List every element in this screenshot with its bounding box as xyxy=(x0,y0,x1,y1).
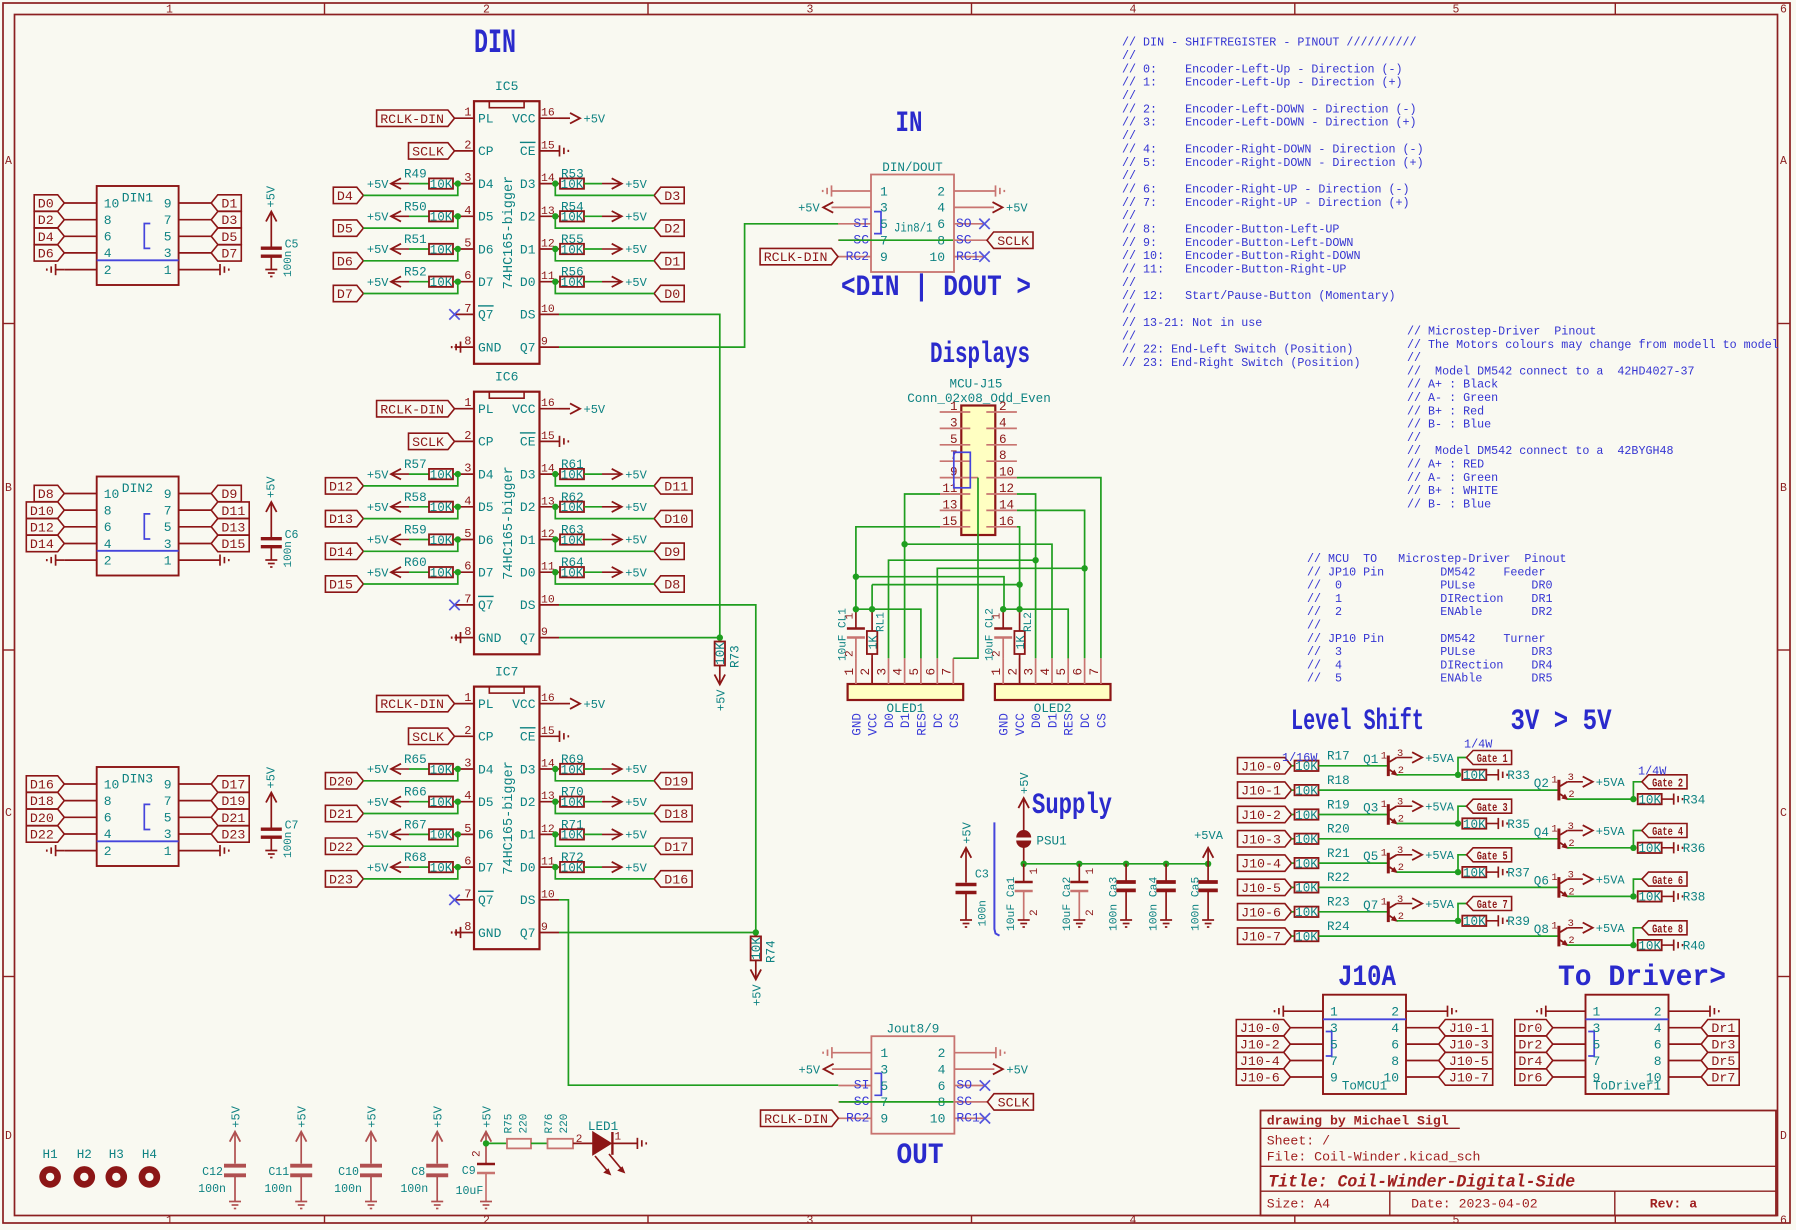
svg-text:// 4 DIRection: // 4 DIRection DR4 xyxy=(1307,658,1552,672)
wire xyxy=(889,560,1036,658)
power +5V xyxy=(370,1132,372,1164)
global label SCLK xyxy=(987,232,1033,248)
net label D2 xyxy=(34,212,64,228)
svg-text:10K: 10K xyxy=(1295,809,1318,823)
svg-text:3: 3 xyxy=(880,201,888,216)
pin 1 of OLED2 xyxy=(1002,658,1004,684)
net label J10-3 xyxy=(1439,1036,1493,1052)
svg-text:D9: D9 xyxy=(221,487,237,502)
svg-text:C3: C3 xyxy=(975,869,989,882)
svg-text:Gate 6: Gate 6 xyxy=(1652,875,1683,888)
svg-text:+5V: +5V xyxy=(625,796,647,810)
junction xyxy=(1032,557,1038,563)
svg-text:220: 220 xyxy=(559,1114,571,1134)
svg-text:4: 4 xyxy=(104,827,112,842)
pin 3 of IC7 xyxy=(455,768,475,770)
ground xyxy=(1018,919,1030,921)
net label J10-7 xyxy=(1238,928,1292,944)
pin 8 of Jin8/1 xyxy=(954,239,987,241)
svg-text:GND: GND xyxy=(850,713,864,736)
ground xyxy=(1709,1006,1711,1017)
pin 9 of IC5 xyxy=(540,346,560,348)
wire xyxy=(584,281,602,283)
svg-text:MCU-J15: MCU-J15 xyxy=(950,378,1003,392)
wire xyxy=(409,539,429,541)
svg-text:1: 1 xyxy=(166,3,173,16)
svg-text:C11: C11 xyxy=(268,1166,289,1179)
junction xyxy=(1455,772,1461,778)
pin 1 of IC6 xyxy=(455,408,475,410)
svg-text:7: 7 xyxy=(1088,668,1102,676)
junction xyxy=(1455,820,1461,826)
junction xyxy=(552,569,558,575)
power +5V xyxy=(719,666,721,685)
svg-text:10K: 10K xyxy=(1295,857,1318,871)
symbol graphic bracket xyxy=(874,1073,881,1095)
pin 12 of IC6 xyxy=(540,539,560,541)
svg-text:R22: R22 xyxy=(1327,871,1350,885)
svg-text:VCC: VCC xyxy=(1014,713,1028,736)
svg-text:Dr3: Dr3 xyxy=(1711,1038,1735,1053)
wire xyxy=(1319,814,1388,816)
resistor R24 xyxy=(1295,931,1319,941)
svg-text:D1: D1 xyxy=(520,242,536,257)
svg-text:9: 9 xyxy=(1330,1070,1338,1085)
pin 5 of IC7 xyxy=(455,833,475,835)
global label SCLK xyxy=(409,728,455,744)
power +5V xyxy=(612,178,622,189)
wire xyxy=(1003,609,1068,658)
svg-text:12: 12 xyxy=(999,482,1014,496)
resistor R66 xyxy=(429,797,453,807)
pin 5 of DIN1 xyxy=(179,235,212,237)
wire xyxy=(453,866,458,868)
svg-text:10K: 10K xyxy=(1638,939,1661,953)
net label Gate 7 xyxy=(1467,897,1512,911)
svg-text:R52: R52 xyxy=(404,266,427,280)
svg-text:15: 15 xyxy=(942,515,957,529)
svg-text:+5V: +5V xyxy=(367,829,389,843)
resistor R71 xyxy=(560,829,584,839)
junction xyxy=(1205,861,1211,867)
pin 4 of DIN1 xyxy=(64,252,96,254)
svg-text:220: 220 xyxy=(519,1114,531,1134)
wire xyxy=(871,585,873,610)
wire xyxy=(363,507,457,519)
pin 1 of ToMCU1 xyxy=(1283,1010,1323,1012)
svg-text:6: 6 xyxy=(104,520,112,535)
svg-text:D1: D1 xyxy=(664,254,680,269)
svg-text:4: 4 xyxy=(937,201,945,216)
pin 3 of Jin8/1 xyxy=(832,206,872,208)
net label D5 xyxy=(333,220,363,236)
svg-text:// A- : Green: // A- : Green xyxy=(1407,471,1498,485)
svg-text:J10-2: J10-2 xyxy=(1240,1038,1280,1053)
svg-text:10: 10 xyxy=(999,466,1014,480)
svg-text:RC2: RC2 xyxy=(846,249,869,264)
pin 8 of IC6 xyxy=(455,637,475,639)
svg-text:D3: D3 xyxy=(520,467,536,482)
junction xyxy=(717,634,723,640)
net label Gate 1 xyxy=(1467,751,1512,765)
pin 3 of DIN3 xyxy=(179,833,212,835)
svg-text:2: 2 xyxy=(1391,1005,1399,1020)
svg-text:3: 3 xyxy=(880,1062,888,1077)
svg-text:10K: 10K xyxy=(430,243,453,257)
svg-text:3: 3 xyxy=(1568,870,1574,882)
junction xyxy=(552,864,558,870)
pin 14 of MCU-J15 xyxy=(986,509,1017,511)
pin 10 of DIN3 xyxy=(64,783,96,785)
pin 5 of ToDriver1 xyxy=(1553,1043,1586,1045)
pin 10 of Jout8/9 xyxy=(954,1117,984,1119)
svg-text:1: 1 xyxy=(843,668,857,676)
junction xyxy=(455,471,461,477)
wire xyxy=(409,866,429,868)
svg-text:5: 5 xyxy=(1330,1037,1338,1052)
pin 5 of DIN3 xyxy=(179,816,212,818)
svg-text:14: 14 xyxy=(999,498,1014,512)
pin 9 of MCU-J15 xyxy=(940,477,971,479)
svg-text:R34: R34 xyxy=(1683,793,1706,807)
svg-text:D: D xyxy=(5,1130,12,1143)
resistor R69 xyxy=(560,764,584,774)
resistor R60 xyxy=(429,567,453,577)
svg-text:4: 4 xyxy=(1039,668,1053,676)
svg-text:10K: 10K xyxy=(1463,866,1486,880)
svg-text:Gate 7: Gate 7 xyxy=(1477,899,1508,912)
pin 9 of ToDriver1 xyxy=(1553,1076,1586,1078)
pin 4 of Jout8/9 xyxy=(954,1068,994,1070)
svg-text:+5V: +5V xyxy=(625,861,647,875)
pin 2 of IC6 xyxy=(455,440,475,442)
svg-text:3: 3 xyxy=(807,1214,814,1227)
svg-text:IC7: IC7 xyxy=(495,665,518,680)
global label RCLK-DIN xyxy=(377,401,455,417)
pin 8 of Jout8/9 xyxy=(954,1101,987,1103)
pin 6 of DIN1 xyxy=(64,235,96,237)
svg-text:2: 2 xyxy=(938,1046,946,1061)
symbol graphic bracket xyxy=(144,804,150,829)
junction xyxy=(455,799,461,805)
svg-text:5: 5 xyxy=(164,811,172,826)
pin 10 of Jin8/1 xyxy=(954,256,984,258)
junction xyxy=(552,471,558,477)
svg-text:1K: 1K xyxy=(867,636,880,650)
wire xyxy=(409,248,429,250)
svg-text:+5V: +5V xyxy=(1006,1063,1028,1077)
svg-text:1/16W: 1/16W xyxy=(1282,751,1318,765)
ground xyxy=(1447,1006,1449,1017)
svg-text:2: 2 xyxy=(1085,909,1097,916)
net label D14 xyxy=(26,535,64,552)
pin 4 of MCU-J15 xyxy=(986,427,1017,429)
ground xyxy=(265,559,277,561)
wire xyxy=(453,571,458,573)
resistor R75 220 xyxy=(507,1139,531,1149)
svg-text:1: 1 xyxy=(880,1046,888,1061)
pin 4 of IC6 xyxy=(455,506,475,508)
svg-text:10K: 10K xyxy=(430,829,453,843)
svg-text:10K: 10K xyxy=(561,829,584,843)
ground xyxy=(55,264,57,275)
svg-text:+5V: +5V xyxy=(296,1105,310,1127)
power +5V xyxy=(391,276,401,287)
symbol graphic line xyxy=(1323,1018,1406,1020)
pin 2 of OLED2 xyxy=(1019,658,1021,684)
pin 3 of MCU-J15 xyxy=(940,427,971,429)
svg-text:PL: PL xyxy=(478,112,494,127)
power +5VA xyxy=(1207,848,1209,864)
ground xyxy=(219,264,221,275)
svg-text:D0: D0 xyxy=(38,197,54,212)
pin 2 of MCU-J15 xyxy=(986,411,1017,413)
pin 15 of MCU-J15 xyxy=(940,526,971,528)
svg-text:7: 7 xyxy=(164,794,172,809)
svg-text://: // xyxy=(1122,276,1136,290)
pin 4 of IC5 xyxy=(455,215,475,217)
pin 11 of IC7 xyxy=(540,866,560,868)
svg-text:D4: D4 xyxy=(478,177,494,192)
svg-text:R19: R19 xyxy=(1327,798,1350,812)
ground xyxy=(1120,919,1132,921)
svg-text:<DIN | DOUT >: <DIN | DOUT > xyxy=(841,271,1031,305)
power +5V xyxy=(391,469,401,480)
power +5V xyxy=(612,244,622,255)
svg-text:6: 6 xyxy=(999,433,1007,447)
svg-text:D18: D18 xyxy=(664,807,688,822)
power +5V xyxy=(612,502,622,513)
svg-text:CE: CE xyxy=(520,730,536,745)
svg-text:+5V: +5V xyxy=(367,861,389,875)
power +5V xyxy=(612,276,622,287)
symbol graphic line xyxy=(1586,1018,1669,1020)
svg-text:J10-1: J10-1 xyxy=(1241,784,1281,799)
symbol graphic blue bracket xyxy=(994,822,999,935)
pin 9 of DIN1 xyxy=(179,202,212,204)
wire xyxy=(584,768,602,770)
svg-text:// DIN - SHIFTREGISTER - PINOU: // DIN - SHIFTREGISTER - PINOUT ////////… xyxy=(1122,36,1417,50)
net label D22 xyxy=(26,826,64,842)
capacitor C10 100n xyxy=(360,1164,382,1168)
svg-text:// 11: Encoder-Button-Right-: // 11: Encoder-Button-Right-UP xyxy=(1122,263,1346,277)
resistor R67 xyxy=(429,829,453,839)
svg-text://: // xyxy=(1122,209,1136,223)
pin 14 of IC6 xyxy=(540,473,560,475)
svg-text:D10: D10 xyxy=(664,512,688,527)
svg-text:CE: CE xyxy=(520,435,536,450)
svg-text:R65: R65 xyxy=(404,753,427,767)
junction xyxy=(455,279,461,285)
svg-text:D6: D6 xyxy=(337,254,353,269)
wire xyxy=(363,769,457,781)
symbol graphic bracket xyxy=(144,224,150,249)
junction xyxy=(1455,918,1461,924)
svg-text:C5: C5 xyxy=(285,239,299,252)
net label D11 xyxy=(211,502,249,519)
svg-text:// B+ : Red: // B+ : Red xyxy=(1407,404,1484,418)
svg-text:R66: R66 xyxy=(404,786,427,800)
wire xyxy=(409,183,429,185)
svg-text:2: 2 xyxy=(104,553,112,568)
svg-text:100n: 100n xyxy=(283,832,295,858)
pin 8 of IC7 xyxy=(455,932,475,934)
wire xyxy=(555,184,654,196)
wire xyxy=(1633,831,1642,848)
no-connect xyxy=(449,895,459,905)
svg-text:100n: 100n xyxy=(400,1183,428,1196)
junction xyxy=(455,213,461,219)
svg-text:+5V: +5V xyxy=(625,763,647,777)
symbol graphic line xyxy=(97,259,179,261)
svg-text:D15: D15 xyxy=(329,578,353,593)
svg-text:10K: 10K xyxy=(1463,915,1486,929)
resistor R20 xyxy=(1295,834,1319,844)
wire xyxy=(1397,823,1458,825)
svg-text:+5V: +5V xyxy=(230,1105,244,1127)
net label D9 xyxy=(654,543,684,559)
pin 5 of Jout8/9 xyxy=(838,1085,871,1087)
svg-text:Dr0: Dr0 xyxy=(1518,1021,1542,1036)
svg-text:J10-3: J10-3 xyxy=(1241,832,1281,847)
power +5VA xyxy=(1412,752,1422,763)
svg-text:D3: D3 xyxy=(520,177,536,192)
ground xyxy=(1673,842,1675,853)
svg-text:PL: PL xyxy=(478,697,494,712)
pin 16 of IC5 xyxy=(540,117,560,119)
pin 6 of IC6 xyxy=(455,571,475,573)
svg-text:Q5: Q5 xyxy=(1363,850,1378,864)
net label D16 xyxy=(654,871,692,887)
svg-text:1: 1 xyxy=(1551,921,1557,933)
svg-text:+5VA: +5VA xyxy=(1596,873,1626,887)
svg-text:DS: DS xyxy=(520,893,536,908)
svg-text:R60: R60 xyxy=(404,556,427,570)
svg-text:VCC: VCC xyxy=(512,697,536,712)
wire xyxy=(905,494,940,658)
svg-text:D1: D1 xyxy=(1047,713,1061,728)
connector OLED1 xyxy=(848,684,964,700)
svg-text:1: 1 xyxy=(164,263,172,278)
svg-text:+5V: +5V xyxy=(625,534,647,548)
svg-text:D2: D2 xyxy=(520,500,536,515)
pin 10 of IC5 xyxy=(540,313,560,315)
svg-text:100n: 100n xyxy=(334,1183,362,1196)
pin 14 of IC7 xyxy=(540,768,560,770)
wire xyxy=(953,478,978,659)
svg-text:+5V: +5V xyxy=(1006,202,1028,216)
svg-text:CE: CE xyxy=(520,144,536,159)
svg-text:1: 1 xyxy=(166,1214,173,1227)
svg-text:2: 2 xyxy=(104,263,112,278)
svg-text:// B+ : WHITE: // B+ : WHITE xyxy=(1407,484,1498,498)
svg-text:+5V: +5V xyxy=(584,698,606,712)
svg-text:D15: D15 xyxy=(221,537,245,552)
pin 16 of IC6 xyxy=(540,408,560,410)
svg-text:IN: IN xyxy=(896,107,923,141)
svg-text:10K: 10K xyxy=(561,534,584,548)
power +5VA xyxy=(1412,850,1422,861)
resistor R53 xyxy=(560,178,584,188)
svg-text:9: 9 xyxy=(164,777,172,792)
svg-text://: // xyxy=(1122,129,1136,143)
svg-text:J10-5: J10-5 xyxy=(1241,881,1281,896)
junction xyxy=(552,246,558,252)
svg-text:6: 6 xyxy=(937,217,945,232)
svg-text:R18: R18 xyxy=(1327,774,1350,788)
svg-text:Sheet: /: Sheet: / xyxy=(1267,1134,1330,1149)
ground xyxy=(295,1201,307,1203)
pin 12 of MCU-J15 xyxy=(986,493,1017,495)
svg-text:R36: R36 xyxy=(1683,842,1706,856)
svg-text:C12: C12 xyxy=(202,1166,223,1179)
net label Gate 8 xyxy=(1642,921,1687,935)
pin 2 of DIN1 xyxy=(64,269,96,271)
svg-text:3: 3 xyxy=(164,827,172,842)
svg-text:R23: R23 xyxy=(1327,896,1350,910)
net label D0 xyxy=(34,195,64,211)
ground xyxy=(559,436,561,447)
power +5V xyxy=(270,793,272,830)
resistor R54 xyxy=(560,211,584,221)
svg-text:3V > 5V: 3V > 5V xyxy=(1511,705,1612,739)
net label D8 xyxy=(34,485,64,501)
svg-text:9: 9 xyxy=(164,196,172,211)
capacitor C11 100n xyxy=(290,1164,312,1168)
svg-text:9: 9 xyxy=(880,1112,888,1127)
wire xyxy=(453,281,458,283)
svg-text:IC5: IC5 xyxy=(495,79,518,94)
ground xyxy=(1282,1006,1284,1017)
svg-text:5: 5 xyxy=(1453,3,1460,16)
pin 9 of IC7 xyxy=(540,932,560,934)
pin 10 of MCU-J15 xyxy=(986,477,1017,479)
svg-text:J10-4: J10-4 xyxy=(1240,1054,1280,1069)
pin 8 of ToDriver1 xyxy=(1669,1060,1702,1062)
svg-text:D0: D0 xyxy=(1030,713,1044,728)
pin 1 of MCU-J15 xyxy=(940,411,971,413)
wire xyxy=(555,540,654,552)
pin 8 of ToMCU1 xyxy=(1406,1060,1439,1062)
net label D4 xyxy=(333,187,363,203)
pin 14 of IC5 xyxy=(540,183,560,185)
junction xyxy=(552,180,558,186)
svg-text:D21: D21 xyxy=(329,807,353,822)
pin 1 of DIN1 xyxy=(179,269,220,271)
pin 3 of DIN1 xyxy=(179,252,212,254)
global label RCLK-DIN xyxy=(377,110,455,126)
pin 7 of OLED2 xyxy=(1100,658,1102,684)
svg-text:D9: D9 xyxy=(664,545,680,560)
net label D19 xyxy=(211,792,249,809)
connector Jin8/1 xyxy=(871,175,954,273)
svg-text:10: 10 xyxy=(929,250,945,265)
capacitor C12 100n xyxy=(224,1164,246,1168)
net label J10-5 xyxy=(1439,1052,1493,1069)
svg-text:6: 6 xyxy=(1654,1037,1662,1052)
net label J10-0 xyxy=(1236,1020,1290,1036)
net label D17 xyxy=(211,776,249,792)
transistor Q5 xyxy=(1387,853,1390,874)
wire xyxy=(584,183,602,185)
wire xyxy=(1319,911,1388,913)
pin 9 stub extension xyxy=(970,477,978,479)
net label J10-2 xyxy=(1236,1036,1290,1052)
svg-text:100n Ca4: 100n Ca4 xyxy=(1149,877,1161,931)
wire xyxy=(1292,935,1295,937)
pin 3 of OLED2 xyxy=(1035,658,1037,684)
junction xyxy=(1123,861,1129,867)
